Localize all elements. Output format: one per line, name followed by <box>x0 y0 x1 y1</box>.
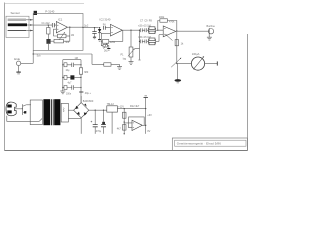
wire P2 right to ground <box>107 46 108 49</box>
wire switch to transformer <box>26 104 31 106</box>
node R7 input <box>157 30 158 31</box>
svg-text:10µ: 10µ <box>66 70 71 72</box>
svg-text:4k7: 4k7 <box>117 127 122 130</box>
shield riser wire <box>32 50 34 63</box>
plug pin 2 <box>7 110 11 113</box>
wire plug to switch <box>15 108 21 110</box>
wire R4 right <box>109 40 123 42</box>
svg-text:40µ +: 40µ + <box>85 92 92 95</box>
svg-text:2µ2: 2µ2 <box>84 24 89 28</box>
node junction C3a <box>94 27 95 28</box>
diode D1 <box>99 28 101 29</box>
resistor R7 feedback <box>160 19 168 22</box>
wire D1 to ground <box>99 33 101 40</box>
svg-text:Gewitterwarngerät · Elrad 5/86: Gewitterwarngerät · Elrad 5/86 <box>177 141 221 145</box>
svg-text:+6V: +6V <box>147 114 152 117</box>
earth terminal <box>16 61 20 65</box>
earth wire <box>21 62 33 64</box>
node C7 top <box>103 110 104 111</box>
resistor R11 on riser <box>79 68 82 74</box>
wire meter branch down <box>176 31 178 63</box>
wire cap C1 to op-amp <box>33 24 56 26</box>
resistor R10 <box>123 125 127 131</box>
wire R2 left <box>51 40 54 42</box>
ground C3a <box>93 36 96 38</box>
wire R7 right to output <box>167 21 176 32</box>
ground P2 <box>107 48 110 50</box>
node junction D1 <box>99 27 100 28</box>
wire R4 left to inverting input <box>101 33 110 41</box>
svg-text:C1 2p2: C1 2p2 <box>42 22 51 25</box>
potentiometer P3 <box>129 47 133 57</box>
capacitor C4b row2 <box>140 40 145 44</box>
ground P3 <box>129 61 134 63</box>
wire secondary lower to bridge <box>68 117 81 120</box>
wire P1 left to inverting input <box>54 29 58 36</box>
node divider top <box>124 108 125 109</box>
wire to meter <box>177 63 192 65</box>
op-amp IC4 <box>132 120 142 130</box>
trimmer arrow IC3 <box>166 35 173 41</box>
svg-text:1M: 1M <box>75 57 78 60</box>
shield box (preamp enclosure) <box>33 14 83 51</box>
svg-text:1M: 1M <box>71 35 74 37</box>
wire feedback down <box>69 27 71 36</box>
dc rail after regulator <box>117 108 145 110</box>
page frame top <box>4 3 84 5</box>
transformer core bar 1 <box>43 99 50 125</box>
resistor R5c R5d row2 <box>149 38 155 41</box>
bias row 3 <box>63 87 81 89</box>
bridge diodes <box>75 104 87 116</box>
svg-text:470k: 470k <box>169 20 175 23</box>
wire P1 right <box>66 35 70 37</box>
capacitor C1 <box>52 23 54 27</box>
resistor R1 <box>47 28 50 35</box>
switch S1 <box>22 104 24 115</box>
wire IC1 output to stage 2 <box>83 26 99 28</box>
wire IC3 output to jack <box>176 30 209 32</box>
svg-text:100k: 100k <box>159 16 165 19</box>
meter M1 <box>191 57 204 70</box>
resistor R9 <box>123 112 127 118</box>
node IC3 output <box>176 30 177 31</box>
wire P2 left <box>101 41 103 45</box>
svg-text:0V: 0V <box>147 130 150 133</box>
node C6 top <box>95 110 96 111</box>
sensor plate 2 (black) <box>8 23 27 26</box>
page frame right <box>246 34 248 150</box>
trimmer P1 <box>58 34 67 38</box>
node divider mid <box>124 121 125 122</box>
svg-text:B40C800: B40C800 <box>83 100 94 103</box>
transformer secondary <box>61 103 68 122</box>
op-amp IC3 <box>163 26 176 37</box>
transformer primary <box>30 100 42 125</box>
resistor R5a R5b row1 <box>149 27 155 30</box>
plug pin 1 <box>7 105 11 108</box>
wire P3 to ground <box>130 57 132 62</box>
capacitor C2 (dark) <box>46 39 50 44</box>
svg-text:Sensor: Sensor <box>11 11 21 15</box>
svg-text:+12V: +12V <box>118 105 124 108</box>
bridge rectifier B1 <box>74 103 89 118</box>
ground D1 <box>98 39 101 41</box>
wire secondary to bridge <box>68 109 73 111</box>
svg-text:100n: 100n <box>66 94 72 96</box>
bias row 2 <box>63 76 81 78</box>
svg-text:n15 n15 1M: n15 n15 1M <box>138 36 151 39</box>
wire C2 to box bottom <box>47 44 49 51</box>
supply rail right <box>145 98 147 134</box>
jack BU1 <box>208 29 213 34</box>
svg-text:C7 C9 R9: C7 C9 R9 <box>140 20 152 23</box>
transformer core lines <box>51 99 53 125</box>
capacitor C7 <box>103 110 105 122</box>
dc rail <box>89 109 107 111</box>
title block <box>172 138 247 150</box>
svg-text:P-3140: P-3140 <box>45 10 54 14</box>
wire P3 wiper to filter <box>135 41 140 48</box>
capacitor C5 row1 <box>145 28 149 32</box>
wire to pot P3 <box>130 30 132 47</box>
trimmer P4 <box>171 58 181 67</box>
wire R2 right <box>64 36 70 41</box>
svg-text:100µA: 100µA <box>192 52 200 56</box>
wire IC2 output <box>122 29 139 31</box>
ground below earth terminal <box>18 66 20 72</box>
node pot P3 top <box>130 30 131 31</box>
trimmer P2 <box>103 44 107 47</box>
svg-text:IC2 3140: IC2 3140 <box>100 18 111 22</box>
wire IC4 feedback <box>129 117 145 128</box>
wire node lower stub <box>139 49 141 60</box>
bias row 1 <box>63 64 81 66</box>
sensor plate assembly box <box>6 16 29 37</box>
node R1 input <box>48 24 49 25</box>
wire to ferrite <box>92 63 104 65</box>
ferrite bead L1 <box>104 63 111 66</box>
wire sensor plate 3 to shield box <box>26 30 33 32</box>
resistor R4 <box>102 40 108 44</box>
svg-text:680: 680 <box>84 71 89 74</box>
supply riser <box>80 60 82 103</box>
resistor R2 <box>54 39 64 43</box>
wire shield rail drop <box>91 54 93 64</box>
wire IC1 output <box>68 26 84 28</box>
wire IC4 output <box>142 124 145 126</box>
svg-text:Buchse: Buchse <box>207 25 216 28</box>
sensor plate 1 (grey) <box>8 19 26 22</box>
wire meter right <box>205 63 218 65</box>
arrowheads on sensor wires <box>30 19 33 32</box>
svg-text:470µ: 470µ <box>96 130 102 133</box>
wire sensor plate 2 to shield box <box>27 24 33 26</box>
feedthrough terminal <box>34 11 37 15</box>
terminal meter <box>216 61 218 65</box>
wire R1 to C2 <box>47 34 49 39</box>
node meter junction <box>176 63 177 64</box>
mains plug X1 <box>6 102 16 116</box>
wire IC2 feedback down <box>122 30 124 41</box>
page frame left <box>3 3 5 151</box>
sensor plate 3 <box>8 29 26 31</box>
op-amp IC1 input marks <box>57 25 59 29</box>
wire R1 top <box>47 25 49 27</box>
capacitor C3a to ground <box>94 28 96 32</box>
wire sensor plate 1 to shield box <box>26 19 33 21</box>
wire ferrite to ground <box>111 63 120 65</box>
terminal top <box>144 97 148 99</box>
wire divider to op-amp <box>124 121 132 124</box>
svg-text:IC1: IC1 <box>58 18 63 22</box>
node IC1 feedback <box>69 27 70 28</box>
ground bias column <box>60 90 65 92</box>
ground jack <box>207 36 212 38</box>
wire regulator ground pin <box>111 112 113 134</box>
svg-text:R12 4k7: R12 4k7 <box>130 105 140 108</box>
capacitor C5b row2 <box>145 40 149 44</box>
capacitor C3 <box>104 26 106 30</box>
capacitor C4 row1 <box>140 28 145 32</box>
node shield riser rail <box>33 53 34 54</box>
filter input node <box>139 30 141 41</box>
wire P4 to ground <box>177 64 179 80</box>
svg-text:78L12: 78L12 <box>107 102 115 106</box>
op-amp IC2 <box>110 24 122 36</box>
transformer core bar 2 <box>54 99 60 125</box>
bias filter column left line <box>62 60 64 91</box>
page frame bottom <box>4 149 247 151</box>
ground P4 <box>175 79 182 82</box>
resistor R8 <box>175 40 178 46</box>
op-amp IC1 <box>56 22 67 33</box>
capacitor C6 <box>94 110 96 124</box>
shield rail <box>33 53 92 55</box>
wire R7 left <box>158 21 163 31</box>
wire bridge plus up <box>80 96 82 103</box>
bias top wire <box>63 59 81 61</box>
ground after ferrite <box>119 64 121 66</box>
virtual ground divider line <box>123 109 125 134</box>
svg-text:Erde: Erde <box>14 57 20 61</box>
regulator IC5 <box>107 106 118 112</box>
wire C3 to IC2 <box>105 27 110 29</box>
wire bridge minus down <box>80 118 82 134</box>
svg-text:n15 n15 1M: n15 n15 1M <box>138 24 151 27</box>
wire mains lower <box>7 116 42 122</box>
